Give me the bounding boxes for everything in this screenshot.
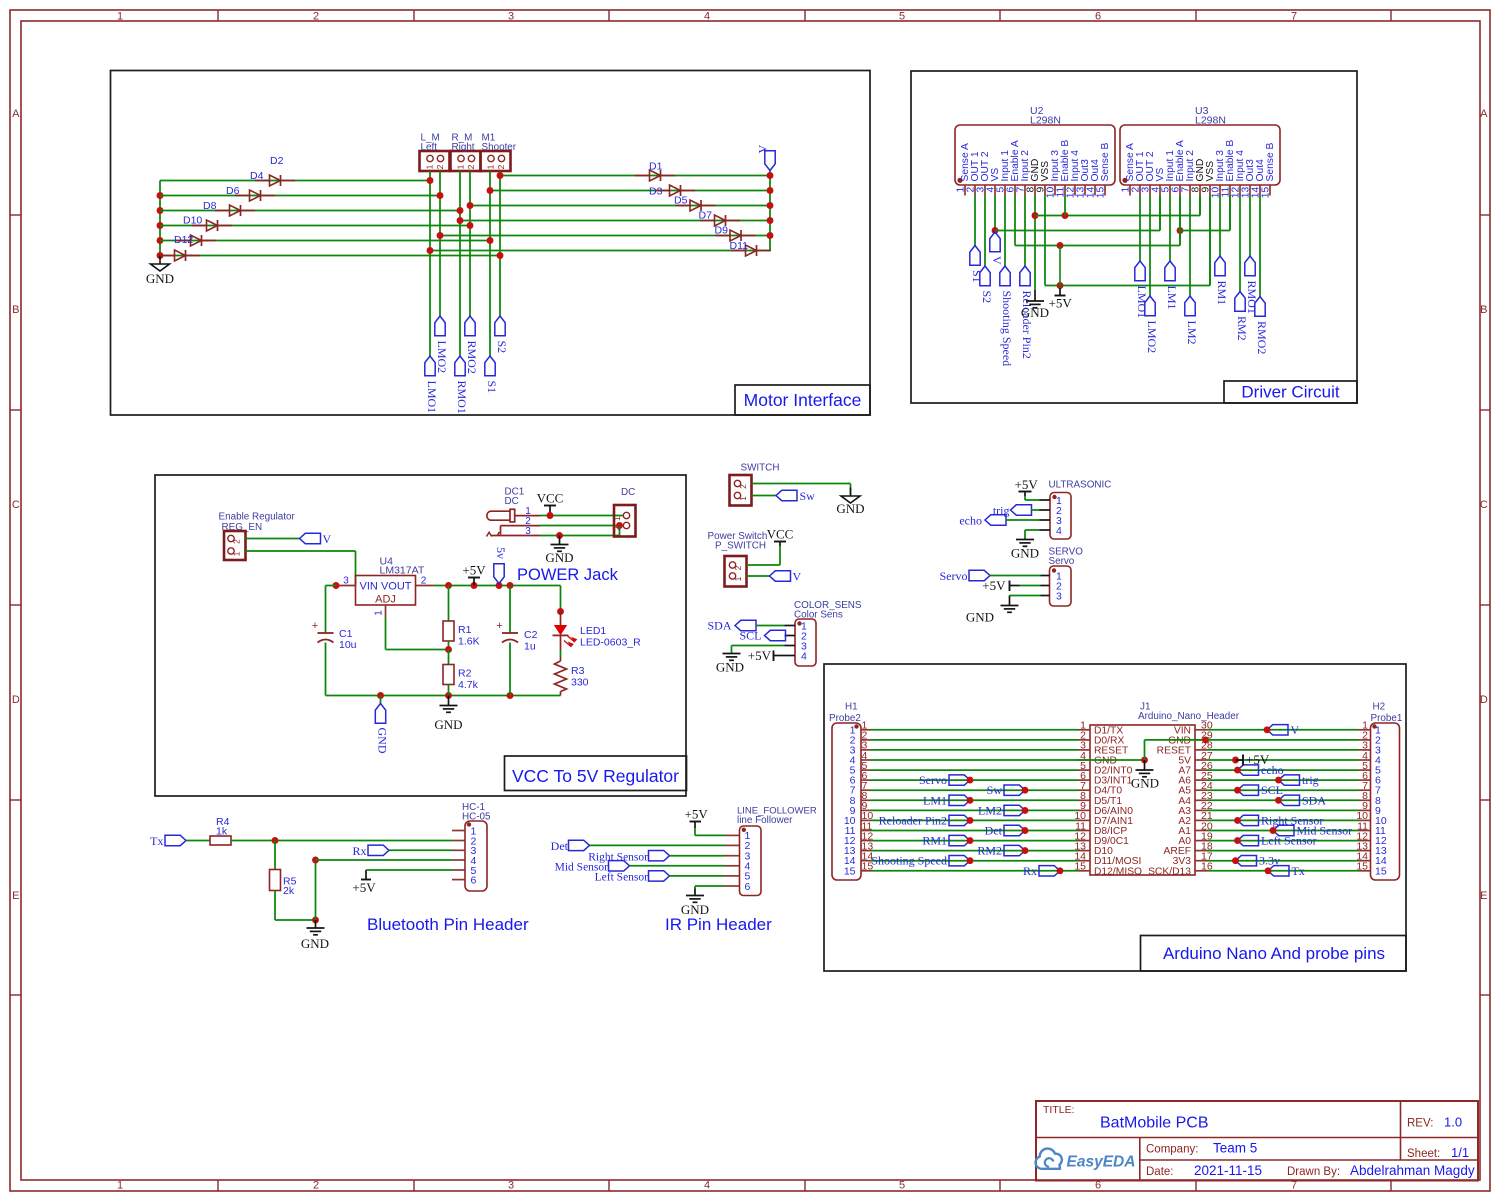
svg-text:Bluetooth Pin Header: Bluetooth Pin Header — [367, 915, 529, 934]
net flag V (REG_EN) — [300, 532, 332, 546]
wire Servo to SERVO pin1 — [990, 575, 1041, 577]
net flag RMO1 — [1245, 256, 1259, 314]
svg-text:2k: 2k — [283, 885, 295, 897]
svg-text:V: V — [990, 256, 1004, 265]
connector R_M (Right motor header) — [451, 133, 481, 172]
net flag RMO2 — [1255, 297, 1269, 355]
svg-text:V: V — [793, 570, 802, 584]
svg-text:E: E — [12, 890, 19, 902]
wire left rail 6 — [160, 255, 500, 257]
diode D2 — [255, 155, 295, 186]
wire regulator bottom rail — [326, 692, 561, 699]
connector SERVO — [1041, 547, 1084, 607]
wire Mid Sensor to pin4 — [630, 865, 725, 867]
wire REG_EN pin1 to VIN — [246, 551, 356, 586]
connector ULTRASONIC — [1040, 480, 1112, 540]
net flag 3.3v (arduino right) — [1232, 854, 1280, 868]
wire U3 to RM1 — [1219, 196, 1221, 257]
wire GND node to HC-05 pin4 — [312, 857, 452, 920]
net flag V (driver) — [990, 232, 1004, 265]
svg-text:1: 1 — [374, 610, 385, 616]
svg-text:D12: D12 — [174, 234, 193, 246]
wire H1 pin13 to J1 pin13 — [871, 850, 1079, 852]
ground GND (driver) — [1021, 290, 1049, 320]
wire left rail 3 — [160, 210, 460, 212]
connector COLOR_SENS — [785, 600, 862, 666]
wire GND net U2.8 to U3.8 — [1035, 196, 1200, 219]
diode D10 — [176, 215, 216, 247]
power +5V (driver) — [1049, 246, 1073, 311]
svg-text:LM1: LM1 — [1165, 286, 1179, 310]
wire right rail 1 — [500, 175, 770, 177]
svg-text:DC: DC — [505, 496, 519, 507]
svg-text:2: 2 — [421, 576, 427, 587]
VCC To 5V Regulator section box — [155, 475, 687, 796]
net flag LMO2 — [435, 316, 449, 373]
wire DC1 pin1 to DC — [540, 512, 623, 519]
wire U3 EnableA corner — [1179, 196, 1181, 246]
net flag RM2 — [1235, 292, 1249, 341]
svg-text:LED1: LED1 — [580, 625, 606, 637]
net flag SCL (arduino right) — [1234, 783, 1283, 797]
svg-text:D2: D2 — [270, 155, 284, 167]
wire J1 pin24 to H2 pin7 — [1207, 789, 1359, 791]
svg-text:Motor Interface: Motor Interface — [744, 390, 862, 410]
wire U2 OUT1 to S1 — [974, 196, 976, 246]
svg-text:GND: GND — [434, 717, 462, 732]
net flag Left Sensor (arduino right) — [1234, 834, 1317, 848]
Arduino Nano And probe pins section box — [824, 664, 1406, 971]
svg-text:Driver Circuit: Driver Circuit — [1241, 383, 1340, 402]
wire H1 pin11 to J1 pin11 — [871, 830, 1079, 832]
svg-text:LM1: LM1 — [923, 793, 947, 807]
wire H1 pin3 to J1 pin3 — [871, 749, 1079, 751]
svg-text:Sheet:: Sheet: — [1407, 1148, 1440, 1160]
power +5V (ultrasonic) — [1015, 477, 1039, 496]
svg-text:4.7k: 4.7k — [458, 679, 479, 691]
svg-text:+: + — [312, 620, 318, 632]
svg-text:C: C — [12, 499, 20, 511]
power +5V (servo) — [982, 578, 1019, 593]
wire J1 pin16 to H2 pin15 — [1207, 870, 1359, 872]
wire H1 pin1 to J1 pin1 — [871, 729, 1079, 731]
wire H1 pin4 GND into J1 — [871, 736, 1209, 763]
wire U2 Input2 to Reloader Pin2 — [1024, 196, 1026, 267]
wire U3 EnableB to +5V net — [1180, 196, 1230, 231]
svg-text:GND: GND — [375, 728, 389, 754]
svg-text:GND: GND — [1011, 546, 1039, 561]
wire U2 Input1 to Shooting Speed — [1004, 196, 1006, 267]
wire echo to pin3 — [1006, 519, 1040, 521]
connector H2 Probe1 — [1356, 702, 1403, 881]
connector HC-1 HC-05 — [452, 802, 491, 891]
wire U2 VS to V flag — [992, 196, 999, 234]
svg-text:2: 2 — [313, 11, 319, 23]
svg-text:RMO1: RMO1 — [455, 381, 469, 414]
svg-text:RMO2: RMO2 — [1255, 321, 1269, 354]
svg-text:Arduino Nano And probe pins: Arduino Nano And probe pins — [1163, 944, 1385, 963]
svg-text:D10: D10 — [183, 215, 202, 227]
svg-text:LMO1: LMO1 — [425, 381, 439, 414]
svg-text:SCL: SCL — [739, 629, 761, 643]
wire H1 pin10 to J1 pin10 — [871, 819, 1079, 821]
svg-text:1u: 1u — [524, 641, 536, 653]
diode D7 — [699, 210, 741, 227]
svg-text:1: 1 — [117, 11, 123, 23]
svg-text:+5V: +5V — [685, 807, 709, 822]
svg-text:Date:: Date: — [1146, 1166, 1174, 1178]
svg-text:Shooter: Shooter — [482, 142, 517, 153]
svg-text:RM2: RM2 — [977, 844, 1002, 858]
svg-text:GND: GND — [716, 660, 744, 675]
svg-text:Tx: Tx — [150, 834, 163, 848]
wire U3 to RMO1 — [1249, 196, 1251, 257]
wire J1 pin29 to H2 pin2 — [1207, 739, 1359, 741]
svg-text:+5V: +5V — [1246, 752, 1270, 767]
svg-text:GND: GND — [966, 610, 994, 625]
svg-text:LM2: LM2 — [978, 803, 1002, 817]
svg-text:RMO1: RMO1 — [1245, 281, 1259, 314]
svg-text:D: D — [12, 694, 20, 706]
net flag Det (arduino) — [985, 824, 1029, 838]
svg-text:1/1: 1/1 — [1451, 1145, 1469, 1160]
ground GND (switch) — [836, 488, 864, 517]
svg-text:GND: GND — [1131, 776, 1159, 791]
svg-text:Left Sensor: Left Sensor — [1261, 834, 1317, 848]
svg-text:H1: H1 — [845, 702, 858, 713]
wire DC1 pin2 to DC — [540, 522, 623, 529]
svg-text:RM1: RM1 — [922, 834, 947, 848]
diode D8 — [192, 200, 232, 231]
diode D5 — [674, 195, 716, 212]
ground GND (below R2) — [434, 696, 462, 733]
wire H1 pin8 to J1 pin8 — [871, 799, 1079, 801]
net flag RM2 (arduino) — [977, 844, 1028, 858]
wire +5V to ULTRASONIC pin1 — [1025, 496, 1040, 500]
svg-text:LM2: LM2 — [1185, 321, 1199, 345]
wire right rail 5 — [440, 235, 770, 237]
svg-text:+: + — [496, 620, 502, 632]
svg-text:line Follower: line Follower — [737, 815, 793, 826]
svg-text:EasyEDA: EasyEDA — [1067, 1154, 1136, 1171]
svg-text:6: 6 — [1095, 11, 1101, 23]
svg-text:LMO2: LMO2 — [1145, 321, 1159, 354]
svg-text:4: 4 — [704, 1180, 710, 1192]
svg-text:Enable Regulator: Enable Regulator — [219, 512, 296, 523]
wire left rail 4 — [160, 225, 470, 227]
svg-text:4: 4 — [801, 650, 807, 662]
svg-text:Sense B: Sense B — [1100, 142, 1111, 181]
net flag Right Sensor (IR) — [588, 851, 669, 864]
svg-text:SCK/D13: SCK/D13 — [1148, 866, 1191, 877]
net flag LM2 — [1185, 296, 1199, 345]
wire right rail 2 — [490, 190, 770, 192]
wire Det to pin2 — [590, 844, 725, 846]
wire RMO1 vertical — [457, 171, 464, 356]
svg-text:VOUT: VOUT — [381, 581, 412, 593]
net flag V (power switch) — [770, 570, 802, 584]
ground GND (bluetooth) — [301, 920, 329, 951]
net flag Rx (bluetooth) — [352, 844, 389, 858]
power +5V (arduino) — [1232, 752, 1270, 767]
EasyEDA logo — [1036, 1149, 1136, 1171]
wire J1 pin20 to H2 pin11 — [1207, 830, 1359, 832]
svg-text:L298N: L298N — [1030, 115, 1061, 127]
net flag Det (IR) — [551, 839, 590, 853]
wire R5 bottom to GND node — [275, 917, 319, 924]
wire H1 pin6 to J1 pin6 — [871, 779, 1079, 781]
svg-text:7: 7 — [1291, 11, 1297, 23]
net flag Reloader Pin2 (arduino) — [879, 813, 974, 827]
wire J1 pin30 to H2 pin1 — [1207, 729, 1359, 731]
svg-text:RM2: RM2 — [1235, 316, 1249, 341]
connector SWITCH — [730, 463, 780, 506]
svg-text:D: D — [1480, 694, 1488, 706]
wire SDA to COLOR_SENS pin1 — [756, 625, 785, 627]
wire H1 pin9 to J1 pin9 — [871, 809, 1079, 811]
wire Right Sensor to pin3 — [670, 855, 725, 857]
wire VIN to C1 — [326, 586, 337, 634]
svg-text:1.0: 1.0 — [1444, 1115, 1462, 1130]
svg-text:Servo: Servo — [940, 569, 968, 583]
wire Tx to R4 — [186, 840, 210, 842]
svg-text:D11: D11 — [730, 240, 749, 252]
svg-text:1: 1 — [117, 1180, 123, 1192]
svg-text:S1: S1 — [485, 381, 499, 394]
connector REG_EN (Enable Regulator) — [219, 512, 296, 561]
svg-text:15: 15 — [844, 865, 856, 877]
svg-text:Tx: Tx — [1292, 864, 1305, 878]
connector H1 Probe2 — [829, 702, 873, 881]
svg-text:4: 4 — [1056, 525, 1062, 537]
svg-text:3: 3 — [508, 1180, 514, 1192]
svg-text:1: 1 — [733, 576, 743, 581]
svg-text:SWITCH: SWITCH — [741, 463, 780, 474]
wire H1 pin14 to J1 pin14 — [871, 860, 1079, 862]
wire J1 pin21 to H2 pin10 — [1207, 819, 1359, 821]
svg-text:H2: H2 — [1373, 702, 1386, 713]
wire GND left bus — [157, 181, 164, 259]
wire C1 to bottom rail — [325, 643, 327, 696]
wire right rail 4 — [460, 220, 770, 222]
wire RMO2 vertical — [467, 171, 474, 316]
svg-text:D7: D7 — [699, 210, 713, 222]
wire right rail 6 — [430, 250, 770, 252]
svg-text:RMO2: RMO2 — [465, 341, 479, 374]
wire J1 pin26 to H2 pin5 — [1207, 769, 1359, 771]
net flag Left Sensor (IR) — [595, 871, 670, 884]
svg-text:LM317AT: LM317AT — [380, 565, 425, 577]
net flag Shooting Speed (arduino) — [871, 854, 973, 868]
wire J1 pin19 to H2 pin12 — [1207, 840, 1359, 842]
connector DC1 barrel jack — [487, 487, 541, 538]
wire DC1 pin3 to DC — [540, 526, 620, 539]
svg-text:5: 5 — [899, 1180, 905, 1192]
svg-text:D4: D4 — [250, 170, 264, 182]
svg-text:E: E — [1480, 890, 1487, 902]
svg-text:1.6K: 1.6K — [458, 636, 480, 648]
net flag GND (regulator blue) — [375, 696, 389, 754]
net flag LM2 (arduino) — [978, 803, 1028, 817]
connector L_M (Left motor header) — [420, 133, 450, 172]
power +5V (regulator) — [462, 563, 486, 586]
net flag S2 — [980, 266, 994, 303]
wire U3 VS corner — [1159, 196, 1161, 231]
ground GND (color sens) — [716, 654, 744, 675]
power +5V (color sens) — [748, 648, 785, 663]
net flag Tx (bluetooth) — [150, 834, 186, 848]
svg-text:VIN: VIN — [360, 581, 378, 593]
svg-text:+5V: +5V — [352, 880, 376, 895]
wire S2 vertical — [497, 171, 504, 316]
net flag SCL (color sens) — [739, 629, 785, 643]
diode D3 — [649, 185, 695, 198]
svg-text:R1: R1 — [458, 624, 472, 636]
title block — [1036, 1101, 1478, 1181]
svg-text:Shooting Speed: Shooting Speed — [871, 854, 947, 868]
svg-text:TITLE:: TITLE: — [1043, 1104, 1075, 1116]
wire REG_EN pin2 to V flag — [246, 538, 300, 540]
svg-text:+5V: +5V — [748, 648, 772, 663]
wire U2 OUT2 to S2 — [984, 196, 986, 267]
svg-text:LED-0603_R: LED-0603_R — [580, 637, 641, 649]
IC U2 L298N — [955, 105, 1115, 198]
net flag SDA (color sens) — [707, 619, 756, 633]
wire J1 pin27 to H2 pin4 — [1207, 759, 1359, 761]
wire R4 to HC-05 pin2 — [231, 837, 452, 844]
wire J1 pin25 to H2 pin6 — [1207, 779, 1359, 781]
net flag RM1 — [1215, 256, 1229, 305]
svg-text:10u: 10u — [339, 639, 357, 651]
svg-text:Det: Det — [985, 824, 1003, 838]
wire SWITCH pin2 to GND — [752, 484, 851, 496]
svg-text:2021-11-15: 2021-11-15 — [1194, 1163, 1262, 1178]
svg-text:5v: 5v — [494, 547, 508, 559]
wire J1 pin18 to H2 pin13 — [1207, 850, 1359, 852]
ground GND (IR) — [681, 896, 709, 918]
svg-text:B: B — [12, 304, 19, 316]
svg-text:Right: Right — [452, 142, 475, 153]
svg-text:D8: D8 — [203, 200, 217, 212]
net flag S2 — [495, 316, 509, 353]
net flag Servo (arduino) — [919, 773, 973, 787]
net flag Mid Sensor (IR) — [555, 861, 630, 874]
svg-text:Sw: Sw — [800, 489, 816, 503]
capacitor C1 10u — [312, 620, 357, 651]
svg-text:1k: 1k — [216, 826, 228, 838]
svg-text:Left: Left — [421, 142, 438, 153]
wire +5V to line follower pin1 — [695, 828, 725, 835]
ground GND (power jack) — [545, 536, 573, 566]
wire +5V to HC-05 pin5 — [366, 869, 452, 871]
svg-text:15: 15 — [1261, 187, 1272, 199]
svg-text:3: 3 — [343, 576, 349, 587]
svg-text:Company:: Company: — [1146, 1144, 1198, 1156]
wire right rail 3 — [470, 205, 770, 207]
net flag RMO1 — [455, 356, 469, 414]
svg-text:P_SWITCH: P_SWITCH — [715, 541, 766, 552]
svg-text:Team 5: Team 5 — [1213, 1141, 1257, 1156]
power VCC — [537, 491, 564, 516]
net flag Right Sensor (arduino right) — [1234, 813, 1323, 827]
wire +5V net U2.6 to U3.6 — [1015, 196, 1183, 249]
svg-text:15: 15 — [1096, 187, 1107, 199]
wire left rail 1 — [160, 180, 430, 182]
wire J1 pin23 to H2 pin8 — [1207, 799, 1359, 801]
wire ADJ to R1-R2 node — [386, 617, 449, 650]
resistor R4 1k — [210, 816, 231, 845]
wire +5V to SERVO pin2 — [1020, 585, 1041, 587]
capacitor C2 1u — [496, 586, 537, 696]
svg-text:+5V: +5V — [982, 578, 1006, 593]
wire U3 to LMO1 — [1139, 196, 1141, 262]
wire H1 pin7 to J1 pin7 — [871, 789, 1079, 791]
net flag LM1 — [1165, 261, 1179, 310]
wire H1 pin2 to J1 pin2 — [871, 739, 1079, 741]
svg-text:echo: echo — [959, 514, 982, 528]
wire U3 to RMO2 — [1259, 196, 1261, 297]
svg-text:4: 4 — [704, 11, 710, 23]
wire S1 vertical — [487, 171, 494, 356]
svg-text:C2: C2 — [524, 629, 538, 641]
wire SWITCH pin1 to Sw flag — [752, 495, 777, 497]
svg-text:Arduino_Nano_Header: Arduino_Nano_Header — [1138, 711, 1240, 722]
svg-text:1: 1 — [232, 551, 242, 556]
svg-text:REV:: REV: — [1407, 1118, 1433, 1130]
wire U3 to LM2 — [1189, 196, 1191, 297]
svg-text:POWER Jack: POWER Jack — [517, 566, 619, 584]
wire H1 pin5 to J1 pin5 — [871, 769, 1079, 771]
net flag SDA (arduino right) — [1275, 793, 1326, 807]
IC J1 Arduino_Nano_Header — [1074, 702, 1239, 878]
net flag Mid Sensor (arduino right) — [1270, 824, 1353, 838]
svg-text:Rx: Rx — [352, 844, 366, 858]
svg-text:Sense B: Sense B — [1265, 142, 1276, 181]
wire Left Sensor to pin5 — [670, 875, 725, 877]
wire U3 VSS corner — [1209, 196, 1211, 286]
svg-text:2: 2 — [612, 526, 622, 531]
svg-text:GND: GND — [545, 550, 573, 565]
wire U3 EnableB corner — [1229, 196, 1231, 231]
svg-text:BatMobile PCB: BatMobile PCB — [1100, 1115, 1209, 1132]
svg-text:+5V: +5V — [1049, 296, 1073, 311]
net flag S1 — [970, 246, 984, 283]
svg-text:S2: S2 — [495, 341, 509, 354]
wire left rail 2 — [160, 195, 440, 197]
net flag LMO1 — [1135, 261, 1149, 318]
svg-text:DC: DC — [621, 487, 635, 498]
net flag S1 — [485, 356, 499, 393]
svg-text:1: 1 — [486, 164, 496, 169]
connector LINE_FOLLOWER — [725, 806, 817, 896]
svg-text:R2: R2 — [458, 668, 472, 680]
net flag trig (arduino right) — [1275, 773, 1319, 787]
net flag LM1 (arduino) — [923, 793, 973, 807]
svg-text:VCC To 5V Regulator: VCC To 5V Regulator — [512, 766, 679, 786]
Driver Circuit section box — [911, 71, 1357, 403]
resistor R2 4.7k — [443, 650, 479, 696]
svg-text:2: 2 — [466, 164, 476, 169]
svg-text:VCC: VCC — [537, 491, 564, 506]
svg-text:2: 2 — [738, 484, 748, 489]
net flag Sw — [776, 489, 815, 503]
svg-text:3: 3 — [525, 526, 531, 537]
svg-text:2: 2 — [496, 164, 506, 169]
net flag 5v — [494, 547, 508, 584]
wire U3 to LMO2 — [1149, 196, 1151, 297]
ground GND (inside J1) — [1131, 760, 1159, 791]
svg-text:SCL: SCL — [1261, 783, 1283, 797]
